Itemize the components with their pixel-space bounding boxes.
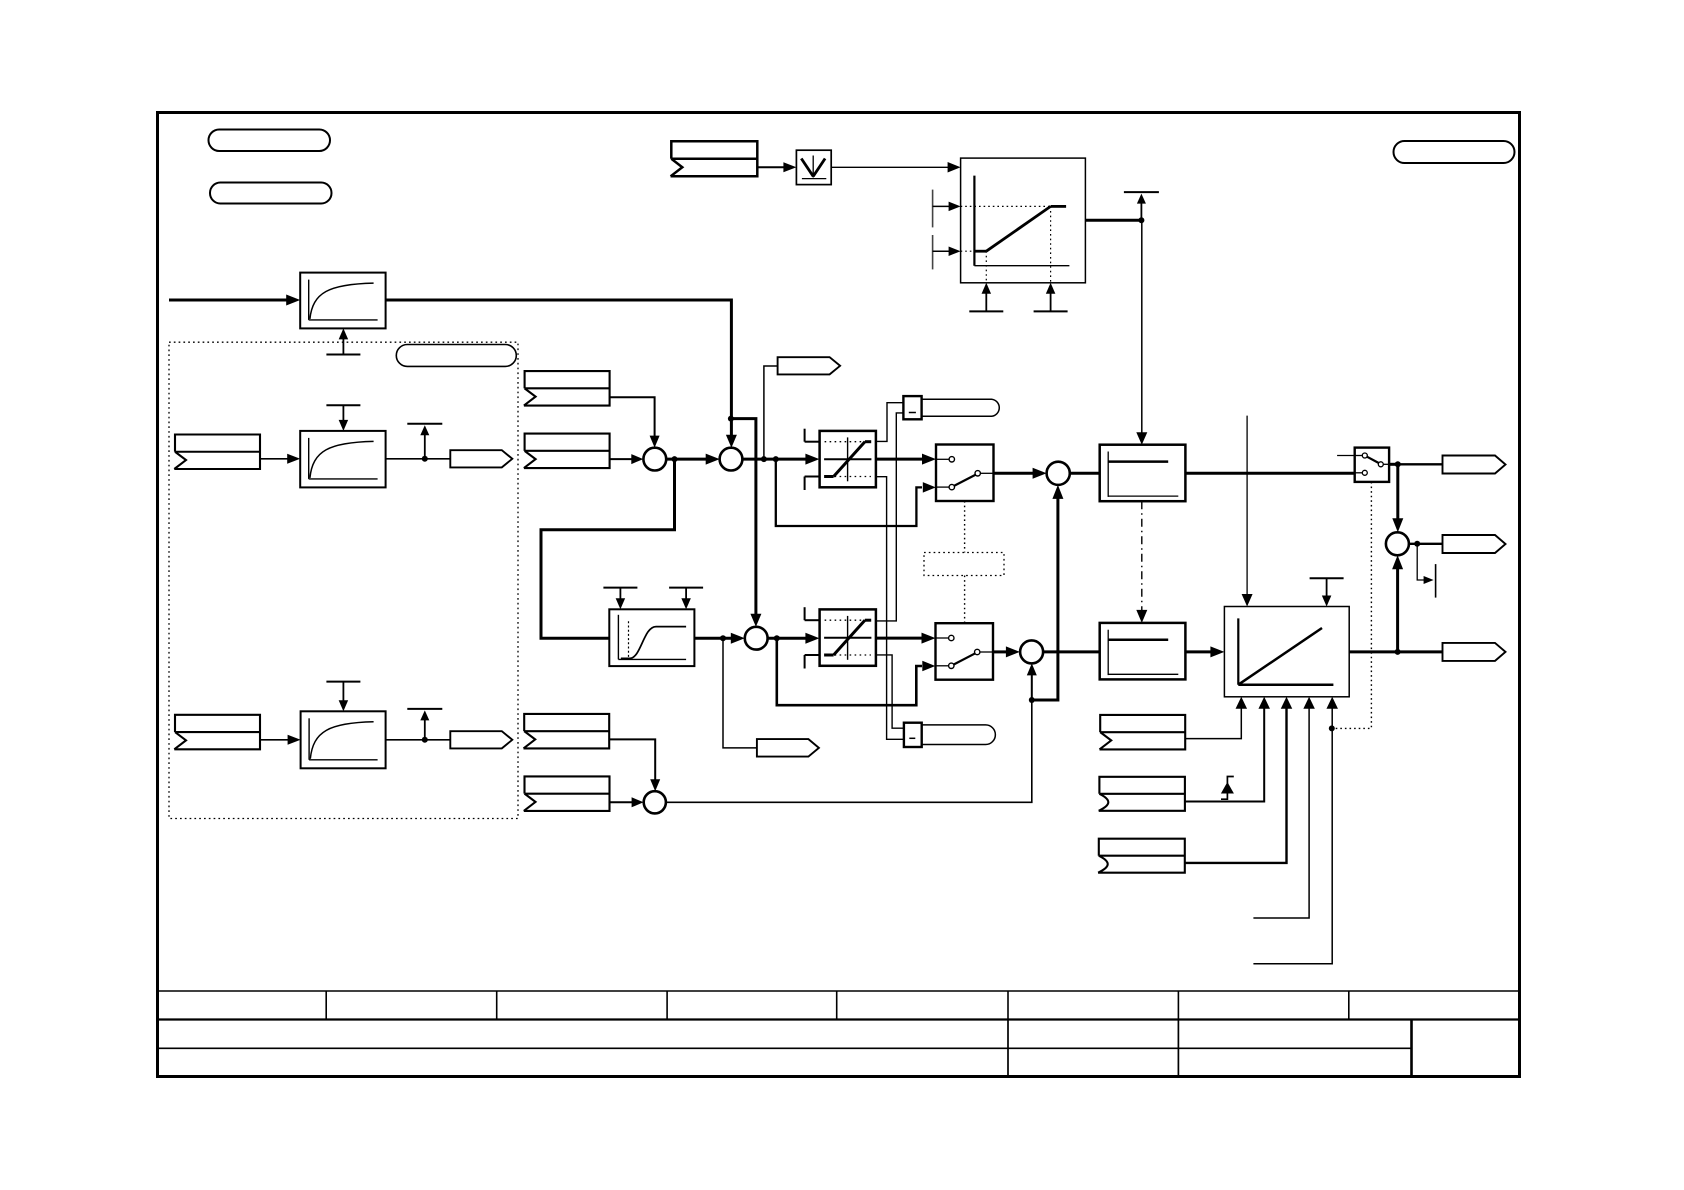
limiter block LIM2 <box>805 619 820 621</box>
junction under summer S4 <box>1029 697 1035 703</box>
wire ramp output down to hold H1 <box>1141 220 1143 433</box>
wire riser from main line into S6 <box>1396 567 1399 652</box>
flag input C <box>524 714 610 749</box>
junction on main output line <box>1395 649 1401 655</box>
wire F2 to B3 <box>260 739 289 741</box>
summer S5 <box>644 791 666 813</box>
wire C to summer S5 top <box>610 739 656 780</box>
hold block H1 <box>1100 445 1186 502</box>
T terminal above ramp output <box>1140 201 1142 220</box>
wire SW2 output to summer S4 <box>993 650 1009 653</box>
hold block H2 <box>1100 623 1186 680</box>
wire main setpoint input <box>169 299 290 302</box>
wire R2 to SC bottom arrow 2 <box>1185 708 1264 802</box>
wire SM to hold block H1 <box>1070 472 1100 475</box>
wire S2 to limiter LIM1 <box>742 458 808 461</box>
flag input F1 (row1) <box>174 435 260 470</box>
junction to bypass 2 <box>774 635 780 641</box>
wire branch down to connector OC7 <box>723 638 757 748</box>
PT1 filter block B3 <box>301 711 386 768</box>
wire R1 to SC bottom arrow 1 <box>1185 708 1241 739</box>
dash-dot link H1 to H2 <box>1141 501 1143 612</box>
flag input F2 (row2) <box>174 715 260 750</box>
wire S6 to output connector OC5 <box>1409 543 1443 545</box>
wire SW3 output <box>1389 463 1398 466</box>
junction S6 output <box>1414 541 1420 547</box>
flag input R2 <box>1099 777 1185 811</box>
parameter T above B3 <box>326 681 360 683</box>
scaling characteristic block SC <box>1224 607 1349 697</box>
wire A to summer S1 top <box>609 397 654 436</box>
wire down into summer S6 <box>1396 464 1399 520</box>
changeover switch SW2 <box>936 623 994 680</box>
wire B3 output <box>386 739 451 741</box>
wire LIM2 upper-limit signal up to binector BN1 <box>876 413 904 621</box>
parameter T above B2 <box>326 404 360 406</box>
binector output BN1 minus box <box>903 396 921 419</box>
binector output BN2 pill <box>922 725 995 745</box>
wire bypass around LIM2 <box>777 638 922 705</box>
output connector OC4 <box>1443 456 1506 474</box>
dotted control line SW1 <box>964 501 966 553</box>
wire FV to minimum block <box>757 166 785 168</box>
output connector OC7 <box>757 739 819 757</box>
T terminal above B2 output <box>424 433 426 459</box>
wire LIM1 output to SW1 <box>876 458 924 461</box>
output connector OC5 <box>1443 535 1506 553</box>
junction B2 output <box>422 456 428 462</box>
final changeover switch SW3 <box>1355 448 1389 482</box>
dashed selector box <box>924 553 1004 576</box>
flag input R1 <box>1100 715 1186 750</box>
parameter T below B1 <box>326 354 360 356</box>
flag input FV <box>671 141 758 176</box>
minimum selection block |V| <box>796 150 831 184</box>
output connector OC3 <box>778 357 841 374</box>
wire stub to SC bottom arrow 5 <box>1253 708 1332 964</box>
flag input R3 <box>1098 839 1185 873</box>
summer SM <box>1047 462 1070 485</box>
wire SC output to OC6 <box>1349 650 1442 653</box>
limit-indicator symbol below OC5 <box>1417 544 1424 580</box>
label pill top-right <box>1394 141 1515 163</box>
output connector OC1 <box>450 450 512 467</box>
label pill inside dotted box <box>396 345 516 367</box>
wire junction to main riser x1058 <box>1032 496 1058 700</box>
wire up into S4 <box>1031 674 1033 700</box>
wire S4 to hold block H2 <box>1043 650 1100 653</box>
limiter block LIM1 <box>805 441 820 443</box>
summer S1 <box>643 448 666 471</box>
wire B to summer S1 <box>609 458 632 460</box>
wire stub to SC bottom arrow 4 <box>1253 708 1309 918</box>
wire branch to circle3 riser <box>731 419 756 615</box>
wire LIM1 lower-limit signal down to binector BN2 <box>876 477 904 740</box>
PT1 filter block B2 <box>300 431 385 488</box>
parameter bar input upper <box>932 190 934 228</box>
parameter T below ramp block 2 <box>1034 310 1068 312</box>
parameter T above S-block left <box>603 587 637 589</box>
ramp characteristic block RB <box>961 158 1086 283</box>
title block column dividers row1 <box>325 991 327 1020</box>
summer S6 <box>1386 532 1409 555</box>
title block row lines <box>158 990 1520 992</box>
wire H2 to scaling block <box>1185 650 1213 653</box>
binector output BN2 minus box <box>904 723 922 747</box>
summer S2 <box>720 448 743 471</box>
dotted control line to SW2 <box>964 576 966 624</box>
changeover switch SW1 <box>936 445 994 502</box>
binector output BN1 pill <box>922 399 999 416</box>
rising edge symbol on R2 wire <box>1221 777 1234 800</box>
wire B2 output <box>386 458 451 460</box>
T terminal above B3 output <box>424 718 426 740</box>
junction to top output connector <box>761 456 767 462</box>
flag input B <box>524 434 610 469</box>
wire to output connector OC4 <box>1398 463 1443 465</box>
S-curve rounding block <box>609 609 694 666</box>
parameter T above S-block right <box>669 587 703 589</box>
wire LIM2 lower-limit signal to binector BN2 <box>876 655 904 728</box>
parameter bar input lower <box>932 235 934 269</box>
wire R3 to SC bottom arrow 3 <box>1185 708 1287 863</box>
wire B1 output to lower summer riser <box>386 300 732 436</box>
PT1 smoothing block B1 <box>300 273 385 329</box>
wire ramp block output <box>1085 219 1141 222</box>
summer S3 <box>745 627 768 650</box>
page frame <box>158 113 1520 1077</box>
wire |V| to ramp block <box>831 166 949 168</box>
junction SW3 output <box>1395 461 1401 467</box>
junction on riser x731 <box>728 416 734 422</box>
junction S-block output <box>720 635 726 641</box>
wire LIM1 upper-limit signal to binector BN1 <box>876 403 904 442</box>
wire long input into SC top <box>1246 416 1248 596</box>
wire SW1 output to summer SM <box>994 472 1036 475</box>
junction ramp output <box>1138 217 1144 223</box>
junction after S1 <box>672 456 678 462</box>
junction to bypass 1 <box>773 456 779 462</box>
wire H1 to final switch <box>1185 472 1354 475</box>
summer S4 <box>1020 640 1043 663</box>
wire D to summer S5 <box>610 801 633 803</box>
wire S-block to summer S3 <box>694 637 733 640</box>
wire S1 to S2 <box>666 458 708 461</box>
dotted group box <box>169 342 518 818</box>
output connector OC6 <box>1443 643 1506 661</box>
junction B3 output <box>422 737 428 743</box>
output connector OC2 <box>450 731 512 748</box>
wire branch up to output connector OC3 <box>764 366 778 459</box>
label pill top-left 1 <box>209 130 331 152</box>
dotted control line SW3 <box>1332 482 1372 729</box>
junction on arrow5 wire for control tap <box>1329 725 1335 731</box>
flag input D <box>524 776 610 811</box>
wire LIM2 output to SW2 <box>876 637 924 640</box>
flag input A <box>524 371 610 406</box>
parameter T above SC <box>1310 577 1344 579</box>
stub wire into SW3 upper input <box>1337 455 1355 457</box>
wire F1 to B2 <box>260 458 289 460</box>
wire S5 output to riser x1031.8 <box>666 700 1032 802</box>
wire S1 branch to S-ramp block <box>541 459 675 638</box>
label pill top-left 2 <box>210 183 332 204</box>
title block column dividers rows 2-3 <box>1007 1020 1009 1077</box>
parameter T below ramp block 1 <box>969 310 1003 312</box>
wire S3 to limiter LIM2 <box>768 637 808 640</box>
wire bypass around LIM1 <box>776 459 922 526</box>
